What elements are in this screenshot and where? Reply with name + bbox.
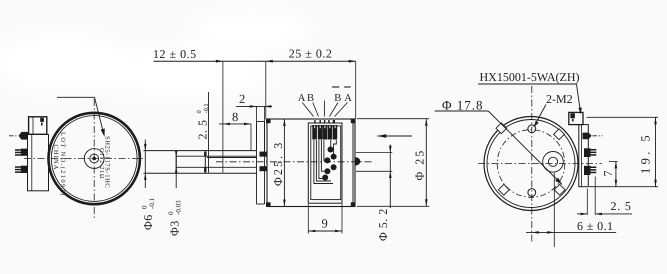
connector body inner line bbox=[31, 135, 33, 191]
terminal pin lower bbox=[15, 166, 27, 173]
solder dots bbox=[322, 147, 336, 181]
dim 2 extension lines bbox=[256, 106, 258, 149]
phi 25 dimension line bbox=[425, 119, 427, 207]
svg-text:-0.03: -0.03 bbox=[175, 200, 183, 215]
rear tab latch mark bbox=[572, 119, 574, 122]
motor outer circle bbox=[48, 113, 139, 204]
svg-text:9: 9 bbox=[322, 217, 328, 231]
middle centerline bbox=[216, 161, 372, 163]
label text SH25 bbox=[103, 136, 110, 188]
6 +- 0.1 dimension line bbox=[526, 231, 616, 233]
tab latch mark bbox=[41, 123, 43, 126]
6 +- 0.1 shaft extension bbox=[553, 173, 555, 247]
2-M2 leader bbox=[534, 105, 546, 127]
dim 2.5 leader line bbox=[208, 92, 210, 173]
corner tab SW bbox=[498, 184, 509, 195]
svg-text:8: 8 bbox=[232, 110, 238, 124]
phi 5.2 extension lines bbox=[356, 152, 392, 154]
motor inner rim circle bbox=[51, 116, 137, 202]
rear connector plate bbox=[579, 125, 589, 187]
shaft bottom line bbox=[144, 172, 257, 174]
motor can body bbox=[267, 119, 355, 207]
svg-text:19. 5: 19. 5 bbox=[639, 132, 653, 174]
svg-text:2. 5: 2. 5 bbox=[611, 199, 632, 213]
dim 2 arrows bbox=[250, 105, 257, 108]
plate inner line bbox=[581, 125, 583, 187]
arrow at 25 dim right end bbox=[349, 60, 356, 63]
shaft center dot bbox=[92, 157, 96, 161]
svg-text:HX15001-5WA(ZH): HX15001-5WA(ZH) bbox=[480, 70, 580, 84]
phi3 arrows bbox=[175, 151, 178, 156]
phi 25 text bbox=[412, 149, 426, 181]
tab inner line bbox=[32, 117, 34, 135]
label text CHINA bbox=[52, 145, 59, 171]
phi6 arrows bbox=[144, 144, 147, 151]
svg-text:7: 7 bbox=[601, 171, 615, 177]
extension line at body front bbox=[265, 61, 267, 119]
locating pin (arrow shaped) bbox=[19, 132, 29, 140]
svg-text:Φ 17.8: Φ 17.8 bbox=[442, 98, 484, 113]
label leader line bbox=[57, 97, 104, 133]
phi3 text bbox=[167, 200, 183, 236]
terminal pins 5x bbox=[312, 125, 337, 140]
svg-text:12 ± 0.5: 12 ± 0.5 bbox=[153, 47, 197, 61]
svg-text:B: B bbox=[334, 93, 341, 104]
rear hub inner bbox=[548, 157, 557, 166]
19.5 top extension bbox=[587, 116, 659, 118]
M2 hole top bbox=[528, 125, 536, 133]
svg-text:Φ 5. 2: Φ 5. 2 bbox=[376, 208, 390, 241]
dim 8 arrows bbox=[223, 123, 230, 126]
centerline horizontal bbox=[24, 158, 146, 160]
dim 9 line bbox=[308, 230, 342, 232]
front plate lines bbox=[256, 122, 258, 205]
phi6 text bbox=[140, 197, 156, 230]
svg-text:25 ± 0.2: 25 ± 0.2 bbox=[289, 47, 333, 61]
terminal housing inner bbox=[311, 126, 341, 200]
rear outer circle bbox=[484, 117, 578, 211]
rear centerline horizontal bbox=[478, 163, 602, 165]
step tick marks bbox=[204, 152, 206, 157]
dim 7 top extension bbox=[609, 160, 618, 162]
pcb traces bbox=[314, 140, 336, 184]
dim 2.5 line left bbox=[577, 213, 587, 215]
rear hub outer bbox=[543, 152, 564, 173]
shaft inner top line bbox=[176, 155, 256, 157]
19.5 dimension line bbox=[655, 117, 657, 186]
svg-text:2: 2 bbox=[239, 92, 245, 106]
svg-text:2-M2: 2-M2 bbox=[546, 92, 573, 106]
label text C112 bbox=[98, 148, 105, 179]
rear terminal pin upper bbox=[584, 148, 596, 157]
corner tab NE bbox=[554, 129, 565, 140]
dim text 19.5 bbox=[639, 132, 653, 174]
pin centerline stub bbox=[9, 135, 18, 137]
bolt circle dashed bbox=[497, 130, 565, 198]
svg-text:6 ± 0.1: 6 ± 0.1 bbox=[577, 219, 613, 233]
rear centerline vertical bbox=[531, 86, 533, 243]
label leader arrowhead bbox=[101, 129, 105, 137]
dim 2.5 extensions bbox=[586, 189, 588, 215]
svg-text:-0.1: -0.1 bbox=[148, 197, 156, 209]
phi 25.3 text bbox=[271, 141, 285, 186]
can right face double line bbox=[352, 119, 354, 207]
phi 5.2 dimension line bbox=[389, 145, 391, 209]
19.5 bottom extension bbox=[589, 186, 658, 188]
svg-text:Φ25. 3: Φ25. 3 bbox=[271, 141, 285, 186]
svg-text:0: 0 bbox=[196, 110, 203, 113]
dim text 7 bbox=[601, 171, 615, 177]
extension line at shaft step bbox=[222, 61, 224, 172]
phi 25 extension lines bbox=[357, 118, 429, 120]
dim 8 line bbox=[219, 123, 251, 125]
dim 7 line bbox=[615, 161, 617, 186]
corner tab NW bbox=[496, 123, 507, 134]
svg-text:Φ 25: Φ 25 bbox=[412, 149, 426, 181]
pin leader lines bbox=[302, 101, 347, 117]
can corner blobs bbox=[266, 119, 355, 207]
phi 5.2 text bbox=[376, 208, 390, 241]
rear pin centerline stub bbox=[593, 135, 603, 137]
HX label underline bbox=[478, 83, 577, 85]
svg-text:B: B bbox=[307, 93, 314, 104]
dim 9 extensions bbox=[307, 204, 309, 234]
dim 8 right extension bbox=[250, 124, 252, 151]
svg-text:C112 21Ω: C112 21Ω bbox=[98, 148, 105, 179]
rear pivot bump bbox=[355, 157, 360, 165]
dim 2.5 line right bbox=[595, 213, 632, 215]
connector body (left) bbox=[28, 135, 49, 191]
arrow at 12 dim right end bbox=[216, 60, 223, 63]
corner tab SE bbox=[554, 184, 565, 195]
phi6 dimension line bbox=[144, 140, 146, 189]
svg-text:A: A bbox=[298, 93, 306, 104]
pin number marks bbox=[314, 120, 335, 123]
hub inner circle bbox=[90, 154, 99, 163]
bearing boss blobs bbox=[260, 152, 267, 157]
rear terminal pin lower bbox=[584, 166, 596, 175]
connector tab (left) bbox=[29, 117, 47, 135]
phi 17.8 leader bbox=[435, 110, 489, 112]
rear inner rim circle bbox=[487, 120, 575, 208]
dim text 2.5 -0.1 vertical bbox=[196, 103, 211, 139]
arrow at 25 dim left end bbox=[266, 60, 273, 63]
rear locating pin arrow bbox=[583, 133, 592, 140]
label text LOT NO bbox=[59, 132, 66, 197]
rear connector tab bbox=[569, 112, 583, 124]
svg-text:LOT NO.(21092): LOT NO.(21092) bbox=[59, 132, 66, 197]
phi 25.3 dimension line bbox=[283, 119, 285, 207]
centerline vertical bbox=[93, 99, 95, 218]
hub outer circle bbox=[84, 149, 104, 169]
shaft tip face bbox=[175, 151, 177, 174]
terminal housing outer bbox=[308, 123, 342, 203]
view direction arrow bbox=[377, 135, 412, 137]
shaft inner bottom line bbox=[176, 166, 256, 168]
terminal pin upper bbox=[15, 149, 27, 156]
svg-text:0: 0 bbox=[167, 211, 175, 215]
extension line at body rear bbox=[355, 61, 357, 119]
shaft step line bbox=[204, 151, 206, 174]
HX leader bbox=[577, 84, 581, 113]
shaft top line bbox=[144, 150, 257, 152]
svg-text:0: 0 bbox=[140, 205, 148, 209]
M2 hole bottom bbox=[528, 189, 536, 197]
dim 2 line bbox=[236, 105, 272, 107]
svg-text:CHINA: CHINA bbox=[52, 145, 59, 171]
tab latch square bbox=[40, 118, 44, 122]
svg-text:Φ6: Φ6 bbox=[141, 214, 155, 230]
svg-text:A: A bbox=[344, 93, 352, 104]
svg-text:Φ3: Φ3 bbox=[168, 220, 182, 236]
svg-text:2. 5: 2. 5 bbox=[196, 120, 210, 140]
svg-text:-0.1: -0.1 bbox=[203, 103, 210, 113]
rear tab latch square bbox=[570, 113, 575, 118]
top dimension line bbox=[154, 60, 356, 62]
phi3 dimension line bbox=[175, 151, 177, 188]
